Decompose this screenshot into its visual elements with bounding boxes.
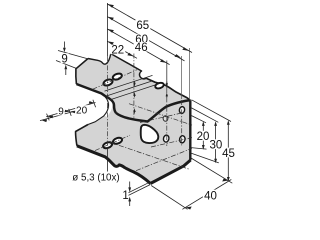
label 9 mid <box>58 106 65 117</box>
hole A1 (o 5,3) top-left column <box>103 78 114 86</box>
label 45 right <box>221 148 236 160</box>
right dims: fan ext lines top <box>192 100 232 122</box>
centerline diag lower right 2 <box>136 148 192 170</box>
svg-text:1: 1 <box>122 190 128 202</box>
arrow 60 right <box>175 54 182 58</box>
hole C1 right section <box>179 106 186 114</box>
centerline lower band <box>95 135 130 150</box>
dim line 45 right <box>227 122 229 181</box>
svg-text:20: 20 <box>76 106 88 117</box>
arrow 46 left <box>107 29 114 33</box>
ear back edge and slot left boundary <box>88 97 109 125</box>
bottom right edges thick <box>150 160 190 184</box>
dim line 22 <box>107 41 137 58</box>
centerline diag lower right 1 <box>110 142 190 169</box>
dim line 30 right <box>215 123 217 162</box>
dim 9/20 arrow right <box>89 101 95 104</box>
centerline left hole column / dim ref / leader <box>106 3 108 56</box>
label 60 <box>134 34 149 46</box>
arrow 22 left <box>107 41 114 45</box>
dim 30 arrows <box>214 121 217 126</box>
arrow 46 right <box>160 59 167 63</box>
right vertical edge <box>189 100 191 160</box>
label 20 mid <box>75 105 88 116</box>
hole C3 <box>163 135 170 143</box>
ext 65 <box>188 48 190 100</box>
svg-text:45: 45 <box>222 148 235 160</box>
svg-text:9: 9 <box>61 54 67 66</box>
lower front edge thick with notch <box>77 146 150 184</box>
label 9 top-left <box>61 53 69 65</box>
upper front edge thick + neck right boundary <box>76 84 116 113</box>
hole A2 <box>112 72 123 80</box>
plate body fill <box>76 54 191 184</box>
label 46 <box>134 42 149 54</box>
dim line 40 <box>182 180 231 210</box>
dim 40 extension line <box>151 186 187 210</box>
lower back edge and sweep to corner <box>147 78 191 100</box>
reference line arrow <box>42 119 48 122</box>
dim 9 upper arrow <box>63 42 65 48</box>
svg-text:46: 46 <box>135 42 148 54</box>
svg-text:20: 20 <box>197 131 210 143</box>
dim line 60 <box>107 17 184 61</box>
svg-text:40: 40 <box>204 190 217 202</box>
hole C2 <box>163 116 168 121</box>
dim line 46 <box>107 29 169 65</box>
left end edge top band <box>76 59 88 85</box>
ext tick B <box>69 109 72 116</box>
hole A3 upper right <box>155 82 165 90</box>
svg-text:65: 65 <box>136 20 149 32</box>
centerline bottom hole row <box>151 138 192 147</box>
tiny arrows at centerline 46 crossing <box>166 82 168 85</box>
tiny arrows at centerline 22 upper crossing <box>134 81 136 84</box>
big cutout hole <box>141 125 159 143</box>
hole B2 <box>112 137 123 145</box>
dim 20 arrows <box>202 121 205 126</box>
ear left corner <box>76 125 88 146</box>
interior edge line a <box>105 75 153 91</box>
ext tick C <box>93 100 96 108</box>
dim 9/20 middle arrows <box>64 110 70 113</box>
label 40 <box>203 190 218 203</box>
label 30 right <box>209 139 224 151</box>
centerline upper band <box>93 70 138 90</box>
back edge left + notch1 <box>88 54 111 65</box>
label 65 <box>135 20 150 32</box>
label 20 right <box>196 131 211 143</box>
label 22 <box>110 45 125 57</box>
svg-text:9: 9 <box>58 107 64 118</box>
dim 9 lower arrow <box>65 69 67 75</box>
dim 1 upper arrow <box>129 182 131 188</box>
dim 40 arrows <box>185 207 191 210</box>
step edge with small notch <box>111 54 147 79</box>
arrow 65 right <box>182 47 189 51</box>
svg-text:30: 30 <box>210 140 223 152</box>
dim 1 lower arrow <box>129 201 131 206</box>
dim line 20 right <box>202 123 204 149</box>
dim 45 arrows <box>227 120 230 125</box>
dim line 65 <box>107 4 192 53</box>
dim 9/20 arrow left <box>48 116 54 119</box>
svg-text:ø 5,3 (10x): ø 5,3 (10x) <box>72 173 119 184</box>
dim 9 top-left: ext lines <box>58 51 89 60</box>
centerline 60 ext / right hole col <box>181 56 183 99</box>
second reference line <box>40 112 73 121</box>
interior valley edge <box>116 100 190 121</box>
arrow 22 right <box>127 53 134 57</box>
dim 1 thickness edge lines <box>123 182 150 196</box>
slot white gap <box>105 96 111 116</box>
interior edge line c <box>111 83 160 99</box>
dim 9/20 mid-left: dim line <box>46 103 95 117</box>
label 1 <box>122 190 128 202</box>
centerline 22 ext <box>133 54 135 119</box>
centerline 46 ext <box>166 61 168 89</box>
tiny arrows at centerline 22 valley crossing <box>134 111 136 114</box>
svg-text:22: 22 <box>111 45 124 57</box>
interior edge line b <box>106 81 152 96</box>
ext tick A <box>47 114 50 121</box>
right dims: ext lines bottom <box>191 148 207 150</box>
centerline diag upper right <box>129 104 192 125</box>
hole B1 bottom-left column <box>102 141 113 149</box>
arrow 60 left <box>107 17 114 21</box>
arrow 65 left <box>107 4 114 8</box>
hole C4 <box>179 135 186 143</box>
